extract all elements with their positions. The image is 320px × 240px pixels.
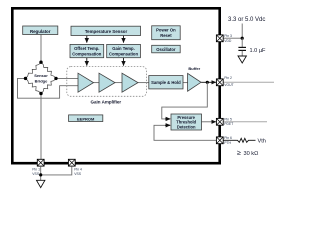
node VSS junction bbox=[39, 173, 42, 176]
pressure threshold detection box bbox=[171, 114, 202, 130]
wire bridge bottom node to pin 1 bbox=[40, 94, 42, 160]
svg-text:Compensation: Compensation bbox=[72, 52, 102, 57]
wire supply vertical from 3.3 or 5.0 Vdc bbox=[241, 24, 243, 39]
svg-text:VDD: VDD bbox=[224, 39, 232, 43]
svg-text:Bridge: Bridge bbox=[35, 78, 48, 83]
temperature sensor box bbox=[71, 26, 141, 35]
buffer amplifier bbox=[188, 73, 201, 91]
wire offset temp compensation to gain amplifier (arrow) bbox=[86, 58, 88, 66]
svg-text:Pin 2: Pin 2 bbox=[224, 76, 232, 80]
wire pin 1 to ground junction bbox=[40, 166, 42, 180]
resistor Rth 30 kOhm bbox=[236, 138, 250, 142]
sample & hold box bbox=[149, 76, 183, 89]
svg-text:Buffer: Buffer bbox=[188, 66, 200, 71]
EEPROM box bbox=[69, 115, 103, 122]
wire amplifier A1 to A2 bbox=[94, 82, 100, 84]
regulator box bbox=[23, 26, 58, 35]
node supply junction bbox=[241, 37, 244, 40]
svg-text:Compensation: Compensation bbox=[109, 52, 139, 57]
wire bridge left node routed to amplifier lower input bbox=[18, 78, 79, 98]
chip outline bbox=[12, 8, 219, 163]
svg-text:Temperature Sensor: Temperature Sensor bbox=[85, 29, 128, 34]
svg-text:Gain Amplifier: Gain Amplifier bbox=[91, 99, 122, 104]
wire pin 6 to resistor Rth bbox=[224, 139, 237, 141]
wire regulator to bridge top node bbox=[40, 35, 42, 63]
wire PDET external line right of pin 5 bbox=[224, 121, 268, 123]
svg-text:PDET: PDET bbox=[224, 122, 233, 126]
sensor bridge bbox=[24, 61, 58, 96]
wire gain temp compensation to gain amplifier (arrow) bbox=[123, 58, 125, 66]
svg-text:Pin 4: Pin 4 bbox=[74, 167, 82, 171]
oscillator box bbox=[152, 45, 181, 53]
wire sample & hold to buffer bbox=[183, 82, 188, 84]
gain amplifier dashed box bbox=[67, 67, 147, 97]
svg-text:VSS: VSS bbox=[74, 172, 82, 176]
wire buffer output to pin 2 (arrow) bbox=[201, 81, 216, 83]
pin 6 bbox=[216, 137, 223, 144]
svg-text:Detection: Detection bbox=[177, 124, 196, 129]
svg-text:VOUT: VOUT bbox=[224, 83, 233, 87]
svg-text:Sample & Hold: Sample & Hold bbox=[151, 80, 181, 85]
resistor bridge top-left bbox=[26, 62, 42, 78]
svg-text:Offset Temp.: Offset Temp. bbox=[74, 46, 99, 51]
wire amplifier A3 to sample & hold bbox=[138, 82, 149, 84]
svg-text:1.0 µF: 1.0 µF bbox=[250, 48, 267, 54]
svg-text:≥ 30 kΩ: ≥ 30 kΩ bbox=[237, 148, 258, 157]
pin 4 bbox=[68, 159, 75, 166]
svg-text:Oscillator: Oscillator bbox=[156, 47, 176, 52]
svg-text:Gain Temp.: Gain Temp. bbox=[112, 46, 135, 51]
capacitor C1 1.0 uF bbox=[238, 47, 246, 55]
ground (capacitor) bbox=[238, 56, 246, 63]
wire buffer output junction to pressure threshold detection (arrow) bbox=[162, 82, 208, 119]
power on reset box bbox=[152, 26, 181, 40]
offset temp compensation box bbox=[70, 44, 104, 57]
node bridge right bbox=[54, 77, 57, 80]
wire pin 4 to ground junction bbox=[41, 166, 72, 175]
op-amp A2 bbox=[99, 73, 115, 92]
svg-text:Regulator: Regulator bbox=[30, 29, 51, 34]
pin 3 bbox=[216, 35, 223, 42]
svg-text:VSS: VSS bbox=[32, 172, 40, 176]
wire bridge right node to amplifier input bbox=[56, 77, 78, 79]
node junction at buffer output bbox=[206, 81, 209, 84]
ground (VSS) bbox=[37, 180, 45, 187]
resistor bridge bottom-left bbox=[26, 78, 42, 93]
pin 5 bbox=[216, 118, 223, 125]
gain temp compensation box bbox=[107, 44, 141, 57]
svg-text:EEPROM: EEPROM bbox=[77, 116, 95, 121]
wire VOUT external line right of pin 2 bbox=[224, 81, 275, 83]
node bridge bottom bbox=[39, 92, 42, 95]
wire pin 6 to pressure threshold detection (arrow) bbox=[154, 125, 217, 140]
op-amp A1 bbox=[78, 73, 94, 92]
svg-text:3.3 or 5.0 Vdc: 3.3 or 5.0 Vdc bbox=[228, 17, 265, 23]
wire temperature sensor to gain temp compensation (arrow) bbox=[123, 36, 125, 43]
pin 1 bbox=[37, 159, 44, 166]
svg-text:Vth: Vth bbox=[258, 138, 266, 144]
svg-text:Pin 5: Pin 5 bbox=[224, 118, 232, 122]
wire temperature sensor to offset temp compensation (arrow) bbox=[86, 36, 88, 43]
pin 2 bbox=[216, 79, 223, 86]
svg-text:Power On: Power On bbox=[156, 28, 176, 33]
svg-text:Reset: Reset bbox=[160, 33, 172, 38]
svg-text:Pin 1: Pin 1 bbox=[32, 167, 40, 171]
svg-text:PTH: PTH bbox=[224, 141, 231, 145]
node bridge left bbox=[24, 77, 27, 80]
wire junction to capacitor bbox=[241, 38, 243, 47]
wire amplifier A2 to A3 bbox=[115, 82, 122, 84]
wire pressure threshold detection to pin 5 (arrow) bbox=[202, 121, 216, 123]
node bridge top bbox=[39, 61, 42, 64]
svg-text:Pin 3: Pin 3 bbox=[224, 34, 232, 38]
op-amp A3 bbox=[122, 73, 138, 92]
svg-text:Pin 6: Pin 6 bbox=[224, 136, 232, 140]
wire pin 3 to supply junction bbox=[223, 37, 242, 39]
resistor bridge bottom-right bbox=[41, 78, 56, 93]
resistor bridge top-right bbox=[41, 62, 56, 78]
wire resistor to Vth bbox=[250, 139, 256, 141]
